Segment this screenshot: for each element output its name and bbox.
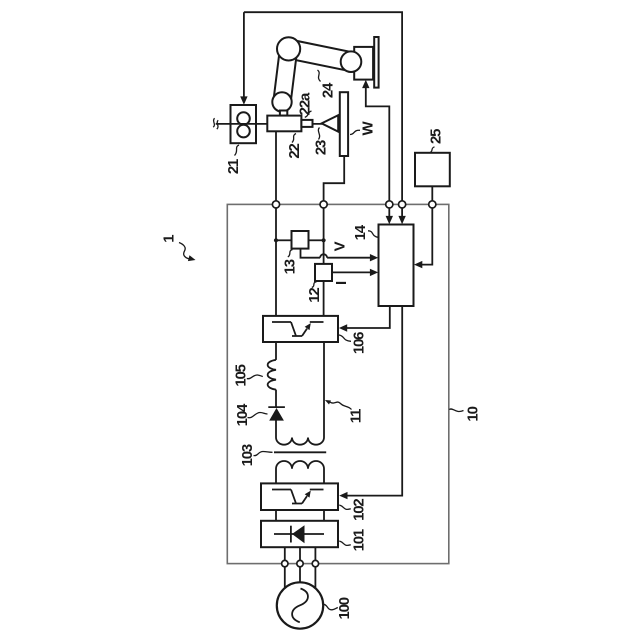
svg-text:1: 1 <box>160 235 177 243</box>
svg-text:12: 12 <box>306 288 323 303</box>
svg-text:14: 14 <box>352 224 369 240</box>
svg-text:22: 22 <box>286 144 303 159</box>
svg-text:24: 24 <box>320 82 337 98</box>
svg-text:25: 25 <box>427 129 444 144</box>
svg-text:21: 21 <box>225 159 242 174</box>
svg-text:102: 102 <box>351 499 368 521</box>
svg-text:100: 100 <box>336 597 353 619</box>
svg-text:W: W <box>360 120 377 135</box>
svg-text:23: 23 <box>313 140 330 155</box>
svg-text:106: 106 <box>351 332 368 354</box>
svg-text:13: 13 <box>281 259 298 274</box>
svg-text:104: 104 <box>234 403 251 426</box>
svg-text:11: 11 <box>348 409 365 423</box>
svg-text:V: V <box>332 241 349 251</box>
svg-text:10: 10 <box>465 406 482 421</box>
svg-text:22a: 22a <box>296 92 313 115</box>
svg-text:105: 105 <box>233 364 250 386</box>
svg-text:103: 103 <box>239 444 256 466</box>
svg-text:101: 101 <box>351 529 368 551</box>
